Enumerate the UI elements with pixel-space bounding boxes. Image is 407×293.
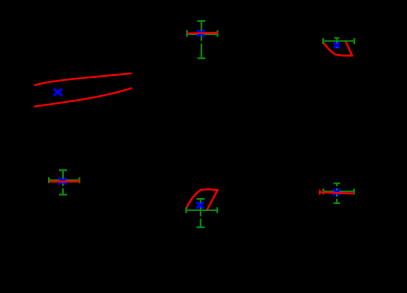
error bar B horizontal (green with caps): [323, 38, 354, 44]
error bar E vertical (green with caps): [197, 199, 205, 227]
error bar D vertical (green with caps, bottom-left): [59, 170, 67, 194]
marker X (best fit, bottom-left): [59, 178, 67, 184]
marker X (best fit, bottom-right): [333, 189, 340, 195]
marker X (best fit, left-middle): [54, 89, 62, 96]
error bar F horizontal (green with caps): [323, 189, 354, 195]
contour C (left-middle red banana, open ends): [35, 73, 132, 106]
error bar B vertical (green with caps): [334, 38, 340, 48]
error bar D horizontal (green with caps): [49, 177, 80, 183]
error bar D red horizontal (no caps): [49, 181, 80, 183]
marker X (best fit, top-middle): [197, 30, 205, 36]
error bar F red horizontal (left cap only, slight tilt): [320, 190, 354, 195]
marker X (best fit, bottom-middle): [197, 202, 204, 208]
error bar A horizontal (green with caps): [187, 30, 218, 37]
error bar A vertical (green with caps, top-middle): [197, 21, 205, 58]
contour C lower edge: [35, 88, 132, 106]
contour B (top-right red banana, open top): [323, 42, 352, 56]
contour E (bottom-middle red banana, open bottom): [186, 189, 217, 209]
contour C upper edge: [35, 73, 131, 85]
error bar E horizontal (green with caps): [186, 207, 217, 213]
marker X (best fit, top-right): [334, 42, 340, 48]
error bar A red horizontal (no caps): [187, 32, 218, 35]
error bar F vertical (green with caps, bottom-right): [334, 183, 341, 203]
